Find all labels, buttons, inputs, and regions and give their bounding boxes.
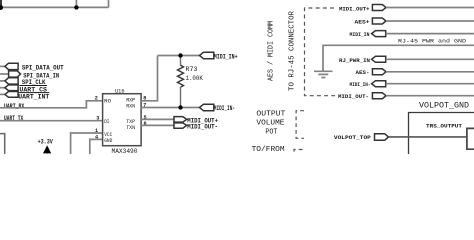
wire stub UART_INT [0,93,5,95]
wire VOLPOT_TOP [389,136,467,138]
wire VOLPOT_GND [409,113,474,155]
net label UART_INT (active low) [18,93,49,101]
wire MIDI_IN [386,33,474,35]
port flag MIDI_OUT- (left area) [174,123,187,128]
ground [314,71,333,77]
port flag MIDI_IN (right) [372,31,386,37]
svg-text:MIDI_OUT-: MIDI_OUT- [338,93,369,100]
wire MIDI_IN- [386,83,474,85]
junction dot R73 bottom [178,105,182,109]
wire stub UART_CS [0,87,5,89]
wire MIDI_IN+ top [158,55,200,57]
junction dot left edge [0,5,3,10]
port flag RJ_PWR_IN [372,56,386,62]
svg-text:AES-: AES- [356,69,370,76]
svg-text:UART_RX: UART_RX [4,103,24,110]
resistor R73 [178,56,184,108]
svg-text:MIDI_IN-: MIDI_IN- [214,105,235,112]
port flag MIDI_IN- (right) [372,81,386,87]
svg-text:1.00K: 1.00K [186,75,204,82]
op-amp U16 body (MAX3490 transceiver) [103,94,142,146]
svg-text:RJ-45 PWR and GND: RJ-45 PWR and GND [398,38,466,44]
wire AES+ [386,20,474,22]
svg-text:MIDI_OUT-: MIDI_OUT- [187,124,218,131]
port flag VOLPOT_TOP [375,134,389,141]
svg-text:OUTPUT: OUTPUT [256,111,286,119]
power symbol +3.3V triangle [43,145,51,153]
port flag SPI_DATA_IN [9,71,21,77]
junction dot top [74,5,78,9]
wire AES- [386,71,474,73]
port flag UART_INT [5,92,18,98]
wire stub SPI_DATA_IN [0,73,9,75]
svg-text:R73: R73 [186,66,198,73]
svg-text:TO/FROM: TO/FROM [252,146,285,154]
svg-text:RO: RO [104,98,111,105]
port flag MIDI_OUT+ (right) [372,5,386,11]
port flag AES- [372,69,386,75]
svg-text:MAX3490: MAX3490 [112,148,138,154]
wire below +3.3V [46,153,48,154]
svg-text:VOLPOT_TOP: VOLPOT_TOP [334,134,372,141]
wire UART_TX [0,120,103,122]
svg-text:MIDI_OUT+: MIDI_OUT+ [339,5,370,12]
wire stub SPI_CLK [0,80,5,82]
wire top-left vertical [0,0,2,8]
net label UART_CS (active low) [19,86,47,94]
port flag MIDI_IN+ (left area) [200,52,214,59]
wire RJ-45 GND [323,45,474,71]
svg-text:1: 1 [95,128,98,134]
svg-text:RJ_PWR_IN: RJ_PWR_IN [339,57,371,64]
svg-text:SPI_CLK: SPI_CLK [22,79,46,86]
port flag SPI_DATA_OUT [5,63,18,69]
svg-text:SPI_DATA_OUT: SPI_DATA_OUT [22,65,64,72]
dashed bracket AES/MIDI section [305,8,336,96]
port flag AES+ [372,18,386,24]
wire stub SPI_DATA_OUT [0,65,5,67]
svg-text:VOLPOT_GND: VOLPOT_GND [419,102,469,111]
port flag MIDI_OUT- (right) [372,93,386,99]
svg-text:U16: U16 [115,87,125,94]
wire GND pin 4 [90,139,103,154]
svg-text:TRS_OUTPUT: TRS_OUTPUT [426,122,463,129]
wire MIDI_OUT- [386,95,474,97]
wire VCC pin 1 [71,133,103,154]
svg-text:UART_INT: UART_INT [18,93,49,100]
svg-text:AES+: AES+ [355,18,371,25]
svg-text:GND: GND [104,137,113,144]
wire top horizontal [0,6,109,8]
component box corner bottom-left [0,134,5,154]
wire pin 5 TXP [141,118,174,120]
svg-text:AES / MIDI COMM: AES / MIDI COMM [268,21,276,81]
wire pin 8 RXP [141,56,158,101]
dashed bracket TO/FROM [294,150,303,155]
svg-text:DI: DI [104,118,109,125]
svg-text:TXN: TXN [126,124,135,131]
svg-text:2: 2 [95,95,98,101]
wire pin 6 TXN [141,124,174,126]
wire MIDI_OUT+ [386,7,474,9]
wire top branch vertical [75,0,77,8]
port flag SPI_CLK [5,78,18,84]
svg-text:+3.3V: +3.3V [38,138,54,146]
wire pin 7 RXN to MIDI_IN- [141,107,200,109]
svg-text:RXN: RXN [126,103,135,110]
svg-text:3: 3 [96,115,99,121]
port flag MIDI_IN- (left area) [200,104,214,111]
svg-text:VOLUME: VOLUME [256,120,284,128]
wire top corner vertical [108,0,110,8]
port flag MIDI_OUT+ (left area) [174,117,187,123]
svg-text:6: 6 [144,121,147,127]
junction dot R73 top [178,53,182,57]
svg-text:4: 4 [95,135,98,141]
svg-text:TO RJ-45 CONNECTOR: TO RJ-45 CONNECTOR [289,10,297,91]
svg-text:POT: POT [265,129,278,137]
connector TRS jack bracket [467,128,474,149]
section label OUTPUT VOLUME POT [256,111,286,137]
port flag UART_CS [5,85,18,91]
svg-text:MIDI_IN: MIDI_IN [350,31,370,38]
wire RJ_PWR_IN [386,58,474,60]
wire UART_RX [0,101,103,108]
dashed bracket OUTPUT VOLUME POT [296,111,304,139]
svg-text:MIDI_IN-: MIDI_IN- [350,81,371,88]
svg-text:MIDI_IN+: MIDI_IN+ [214,53,238,60]
